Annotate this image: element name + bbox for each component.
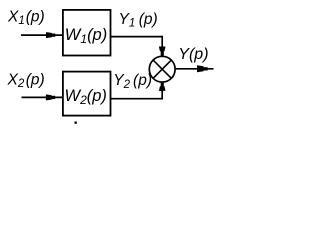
wire: input arrow X2 into block W2 (22, 94, 63, 100)
summing junction X cross stroke 1 (153, 60, 171, 78)
block W2 (63, 72, 111, 116)
svg-text:Y1(p): Y1(p) (119, 11, 158, 30)
stray dot artifact below W2 (75, 122, 77, 124)
summing junction circle (149, 56, 175, 82)
wire: W2 output horizontal segment (110, 98, 163, 100)
wire: input arrow X1 into block W1 (21, 32, 63, 38)
wire: output arrow Y (176, 65, 214, 72)
svg-text:Y2(p): Y2(p) (113, 72, 152, 91)
wire: vertical segment with down arrow into summing junction (159, 36, 166, 56)
block W1 (63, 10, 111, 56)
summing junction X cross stroke 2 (153, 60, 171, 78)
svg-text:Y(p): Y(p) (178, 46, 208, 63)
svg-text:X1(p): X1(p) (7, 8, 45, 27)
svg-text:X2(p): X2(p) (7, 71, 45, 90)
wire: W1 output horizontal segment (110, 36, 163, 38)
wire: vertical segment with up arrow into summing junction (159, 82, 166, 99)
